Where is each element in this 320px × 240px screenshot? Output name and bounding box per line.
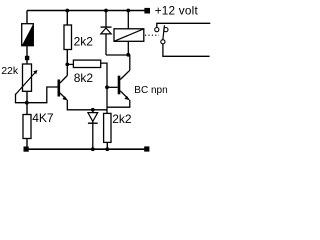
wire contact top to right edge (157, 23, 211, 27)
junction rail/relay (126, 9, 130, 13)
svg-text:2k2: 2k2 (112, 112, 132, 126)
resistor R5 2k2 emitter (104, 113, 111, 142)
potentiometer 22k body (23, 64, 32, 91)
svg-text:BC npn: BC npn (134, 85, 167, 96)
junction emitter bus / D2 (91, 108, 95, 112)
svg-text:+12 volt: +12 volt (155, 4, 199, 18)
wire D1 anode to relay bottom (106, 54, 128, 56)
transistor Q1 (58, 76, 68, 101)
diode D1 flyback (101, 11, 112, 56)
transistor Q2 (118, 70, 130, 100)
terminal 0V left square (24, 147, 29, 152)
junction D2/0V rail (91, 147, 95, 151)
wire 2k2 bottom lead to rail (106, 142, 108, 149)
wire relay bottom lead (127, 41, 129, 55)
wire contact common to right edge (163, 44, 210, 56)
svg-text:4K7: 4K7 (32, 111, 54, 125)
wire LDR to node (26, 46, 28, 56)
wire 2k2 top lead (66, 11, 68, 26)
contact arm (163, 25, 165, 39)
potentiometer 22k wiper arrow (16, 70, 38, 95)
resistor R3 8k2 (73, 60, 100, 67)
wire node to pot (26, 60, 28, 64)
wire top +12V rail (27, 10, 145, 12)
junction 2k2/0V rail (105, 147, 109, 151)
resistor R2 2k2 (64, 25, 72, 50)
contact common (161, 40, 165, 44)
terminal +12V square (144, 8, 150, 14)
junction 2k2/8k2/Q1 collector (65, 63, 69, 67)
wire 4K7 bottom lead (26, 139, 28, 148)
diode D2 (88, 110, 98, 149)
wire wiper drop (16, 94, 27, 103)
wire 2k2 bottom lead (66, 50, 68, 65)
resistor 4K7 (23, 115, 31, 139)
wire LDR top lead (26, 11, 28, 25)
contact fixed right (164, 28, 168, 32)
wire 8k2 right lead to Q2 base column (101, 63, 107, 113)
wire Q2 base lead (107, 86, 118, 88)
wire node to Q1 base riser (27, 87, 58, 103)
mechanical link dotted (145, 34, 159, 36)
wire Q1 emitter drop and emitter bus (67, 100, 107, 110)
junction rail/2k2 (65, 9, 69, 13)
wire relay top lead (127, 11, 129, 29)
junction pot/4K7/wiper (25, 101, 29, 105)
wire pot bottom lead (26, 91, 28, 102)
junction rail/D1 (104, 9, 108, 13)
node square below LDR (25, 56, 29, 60)
wire bottom 0V rail (26, 148, 149, 150)
wire 4K7 top lead (26, 103, 28, 115)
svg-text:8k2: 8k2 (74, 71, 94, 85)
junction relay/collector/D1 (126, 53, 130, 57)
wire Q2 emitter hook to 2k2 (107, 100, 130, 107)
wire Q1 collector riser (66, 64, 68, 75)
terminal 0V right square (144, 146, 149, 151)
wire Q2 collector riser (129, 55, 131, 71)
wire 8k2 left lead (67, 63, 73, 65)
junction Q2 base (105, 85, 109, 89)
LDR R1 (22, 24, 34, 46)
relay coil K1 (114, 29, 144, 42)
svg-text:22k: 22k (1, 65, 19, 77)
svg-text:2k2: 2k2 (74, 35, 94, 49)
contact fixed left (155, 28, 159, 32)
